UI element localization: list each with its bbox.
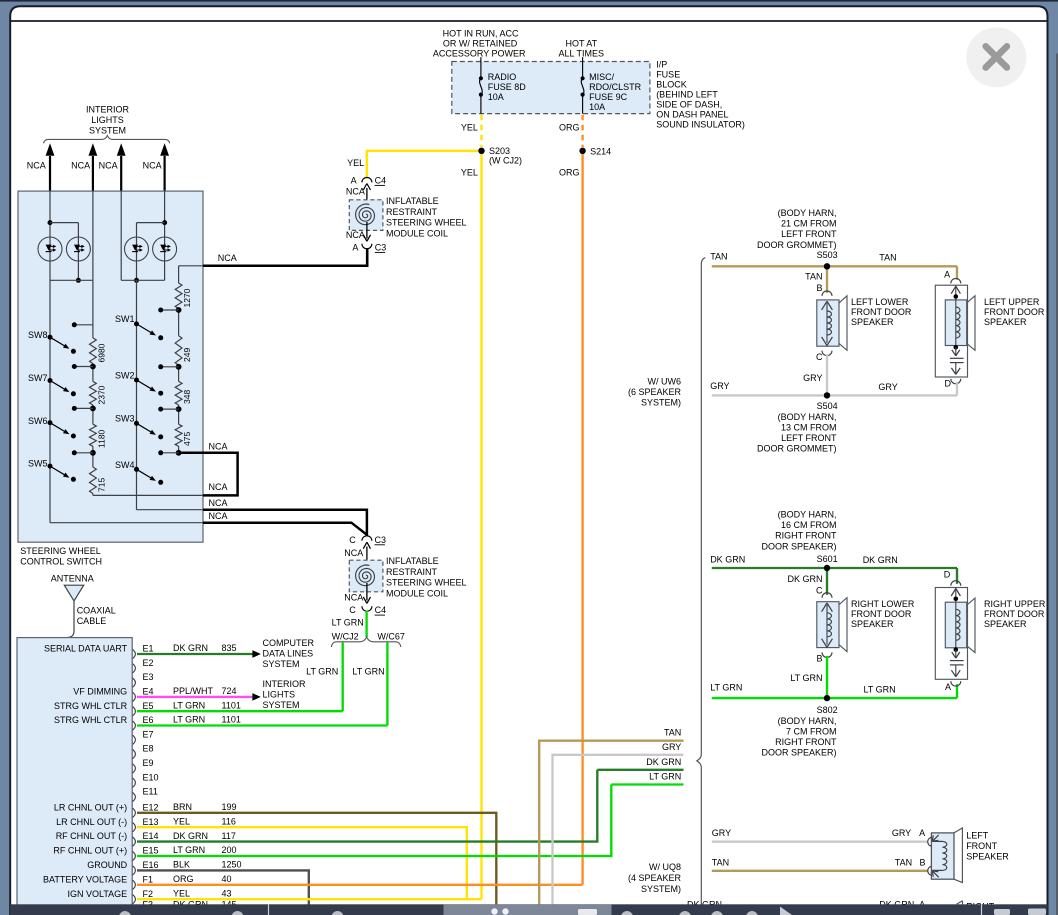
svg-text:FRONT DOOR: FRONT DOOR: [984, 307, 1045, 317]
svg-text:INTERIOR: INTERIOR: [263, 679, 307, 689]
svg-text:1250: 1250: [222, 860, 242, 870]
svg-text:E4: E4: [143, 687, 154, 697]
svg-text:LT GRN: LT GRN: [173, 715, 205, 725]
svg-text:E5: E5: [143, 701, 154, 711]
svg-text:TAN: TAN: [712, 857, 729, 867]
svg-text:E2: E2: [143, 658, 154, 668]
svg-text:43: 43: [222, 888, 232, 898]
svg-text:1101: 1101: [222, 715, 241, 725]
svg-text:LIGHTS: LIGHTS: [263, 690, 296, 700]
svg-text:INTERIOR: INTERIOR: [86, 105, 130, 115]
svg-text:DK GRN: DK GRN: [646, 757, 681, 767]
svg-text:MODULE COIL: MODULE COIL: [386, 589, 448, 599]
svg-text:249: 249: [182, 348, 192, 362]
svg-text:INFLATABLE: INFLATABLE: [386, 196, 439, 206]
svg-text:TAN: TAN: [710, 252, 727, 262]
svg-text:(4 SPEAKER: (4 SPEAKER: [628, 873, 682, 883]
svg-text:(6 SPEAKER: (6 SPEAKER: [628, 387, 682, 397]
svg-text:DOOR SPEAKER): DOOR SPEAKER): [761, 748, 836, 758]
svg-text:VF DIMMING: VF DIMMING: [73, 687, 127, 697]
svg-text:GRY: GRY: [710, 381, 729, 391]
svg-text:MISC/: MISC/: [589, 72, 615, 82]
svg-text:SW7: SW7: [28, 373, 48, 383]
svg-text:LT GRN: LT GRN: [864, 685, 896, 695]
svg-text:C: C: [349, 605, 356, 615]
svg-text:LT GRN: LT GRN: [710, 683, 742, 693]
svg-text:SYSTEM: SYSTEM: [263, 659, 300, 669]
svg-text:A: A: [352, 243, 358, 253]
svg-text:CABLE: CABLE: [77, 616, 107, 626]
svg-text:DK GRN: DK GRN: [173, 831, 208, 841]
svg-text:W/C67: W/C67: [377, 631, 405, 641]
svg-text:LT GRN: LT GRN: [173, 700, 205, 710]
svg-text:E1: E1: [143, 644, 154, 654]
svg-text:B: B: [919, 857, 925, 867]
svg-text:LT GRN: LT GRN: [790, 673, 822, 683]
svg-text:STRG WHL CTLR: STRG WHL CTLR: [54, 701, 128, 711]
svg-text:COAXIAL: COAXIAL: [77, 605, 116, 615]
svg-text:D: D: [944, 569, 951, 579]
svg-text:D: D: [945, 379, 952, 389]
svg-text:STEERING WHEEL: STEERING WHEEL: [20, 546, 101, 556]
svg-text:LEFT FRONT: LEFT FRONT: [781, 229, 837, 239]
svg-text:TAN: TAN: [805, 271, 822, 281]
svg-text:DOOR SPEAKER): DOOR SPEAKER): [761, 541, 836, 551]
svg-text:NCA: NCA: [143, 161, 162, 171]
svg-text:YEL: YEL: [173, 888, 190, 898]
svg-text:GRY: GRY: [803, 373, 822, 383]
svg-text:C: C: [349, 535, 356, 545]
svg-text:B: B: [816, 654, 822, 664]
svg-text:DATA LINES: DATA LINES: [263, 649, 314, 659]
svg-text:PPL/WHT: PPL/WHT: [173, 686, 214, 696]
svg-text:FUSE 8D: FUSE 8D: [488, 82, 527, 92]
svg-text:HOT AT: HOT AT: [565, 39, 597, 49]
svg-text:E8: E8: [143, 744, 154, 754]
svg-text:NCA: NCA: [209, 511, 228, 521]
svg-text:C: C: [816, 352, 823, 362]
svg-text:SYSTEM: SYSTEM: [263, 700, 300, 710]
svg-text:SPEAKER: SPEAKER: [984, 619, 1027, 629]
svg-text:ALL TIMES: ALL TIMES: [559, 48, 605, 58]
svg-text:YEL: YEL: [173, 816, 190, 826]
svg-text:SW1: SW1: [115, 314, 135, 324]
svg-text:SOUND INSULATOR): SOUND INSULATOR): [656, 119, 745, 129]
svg-text:10A: 10A: [488, 92, 504, 102]
svg-text:6980: 6980: [97, 343, 107, 362]
svg-text:BRN: BRN: [173, 802, 192, 812]
svg-text:1101: 1101: [222, 700, 241, 710]
svg-text:GRY: GRY: [878, 382, 897, 392]
svg-text:715: 715: [97, 478, 107, 492]
svg-text:F2: F2: [143, 889, 154, 899]
svg-text:GROUND: GROUND: [87, 860, 127, 870]
svg-text:NCA: NCA: [209, 498, 228, 508]
svg-text:E10: E10: [143, 772, 159, 782]
svg-text:LT GRN: LT GRN: [306, 666, 338, 676]
svg-text:SW2: SW2: [115, 370, 135, 380]
svg-text:S503: S503: [817, 250, 838, 260]
svg-text:F1: F1: [143, 874, 154, 884]
svg-text:BATTERY VOLTAGE: BATTERY VOLTAGE: [43, 874, 127, 884]
svg-text:GRY: GRY: [892, 828, 911, 838]
svg-text:A: A: [944, 270, 950, 280]
svg-text:40: 40: [222, 874, 232, 884]
svg-text:10A: 10A: [589, 102, 605, 112]
svg-text:RIGHT FRONT: RIGHT FRONT: [775, 531, 837, 541]
svg-text:(W CJ2): (W CJ2): [489, 155, 522, 165]
svg-text:SYSTEM): SYSTEM): [641, 884, 681, 894]
svg-text:S214: S214: [590, 146, 611, 156]
svg-text:BLOCK: BLOCK: [656, 80, 687, 90]
svg-text:S802: S802: [817, 705, 838, 715]
svg-text:ACCESSORY POWER: ACCESSORY POWER: [433, 48, 526, 58]
svg-text:E15: E15: [143, 846, 159, 856]
svg-text:SW4: SW4: [115, 460, 135, 470]
svg-text:TAN: TAN: [879, 252, 896, 262]
svg-text:117: 117: [222, 831, 236, 841]
svg-text:LEFT: LEFT: [966, 831, 989, 841]
svg-text:116: 116: [222, 816, 236, 826]
svg-text:C: C: [816, 586, 823, 596]
svg-text:TAN: TAN: [664, 728, 681, 738]
svg-text:RESTRAINT: RESTRAINT: [386, 207, 438, 217]
svg-text:7 CM FROM: 7 CM FROM: [786, 726, 837, 736]
svg-text:GRY: GRY: [662, 742, 681, 752]
svg-text:LR CHNL OUT (+): LR CHNL OUT (+): [54, 802, 127, 812]
svg-text:NCA: NCA: [209, 482, 228, 492]
svg-text:LT GRN: LT GRN: [352, 666, 384, 676]
svg-text:C3: C3: [375, 535, 387, 545]
svg-text:NCA: NCA: [71, 161, 90, 171]
svg-text:S504: S504: [817, 401, 838, 411]
svg-text:ORG: ORG: [173, 874, 194, 884]
svg-text:W/ UW6: W/ UW6: [648, 376, 682, 386]
svg-text:ON DASH PANEL: ON DASH PANEL: [656, 109, 728, 119]
svg-text:1180: 1180: [97, 429, 107, 448]
svg-text:E11: E11: [143, 787, 158, 797]
svg-text:LIGHTS: LIGHTS: [91, 115, 124, 125]
svg-text:348: 348: [182, 390, 192, 404]
svg-text:SPEAKER: SPEAKER: [984, 317, 1027, 327]
svg-text:GRY: GRY: [712, 828, 731, 838]
svg-text:STRG WHL CTLR: STRG WHL CTLR: [54, 715, 128, 725]
svg-text:(BODY HARN,: (BODY HARN,: [778, 412, 837, 422]
svg-text:SPEAKER: SPEAKER: [851, 619, 894, 629]
svg-text:DK GRN: DK GRN: [863, 555, 898, 565]
svg-text:SERIAL DATA UART: SERIAL DATA UART: [44, 644, 128, 654]
svg-text:FUSE: FUSE: [656, 70, 680, 80]
svg-text:E9: E9: [143, 758, 154, 768]
svg-text:16 CM FROM: 16 CM FROM: [781, 520, 837, 530]
svg-text:RIGHT UPPER: RIGHT UPPER: [984, 599, 1046, 609]
svg-text:MODULE COIL: MODULE COIL: [386, 229, 448, 239]
svg-text:LR CHNL OUT (-): LR CHNL OUT (-): [56, 817, 127, 827]
svg-text:RADIO: RADIO: [488, 72, 517, 82]
svg-text:NCA: NCA: [344, 592, 363, 602]
svg-text:NCA: NCA: [218, 253, 237, 263]
svg-text:BLK: BLK: [173, 860, 190, 870]
svg-text:A: A: [919, 828, 925, 838]
svg-text:1270: 1270: [182, 288, 192, 307]
svg-text:S601: S601: [817, 554, 838, 564]
svg-text:SPEAKER: SPEAKER: [966, 852, 1009, 862]
svg-text:NCA: NCA: [209, 441, 228, 451]
svg-text:SW6: SW6: [28, 416, 48, 426]
svg-text:200: 200: [222, 845, 237, 855]
svg-text:2370: 2370: [97, 385, 107, 404]
svg-text:NCA: NCA: [99, 161, 118, 171]
svg-text:RDO/CLSTR: RDO/CLSTR: [589, 82, 642, 92]
svg-text:CONTROL SWITCH: CONTROL SWITCH: [20, 556, 102, 566]
svg-text:RF CHNL OUT (+): RF CHNL OUT (+): [53, 846, 127, 856]
svg-text:E16: E16: [143, 860, 159, 870]
svg-text:DK GRN: DK GRN: [787, 574, 822, 584]
svg-text:DOOR GROMMET): DOOR GROMMET): [757, 444, 837, 454]
svg-text:FRONT DOOR: FRONT DOOR: [851, 609, 912, 619]
svg-text:SYSTEM: SYSTEM: [89, 126, 126, 136]
svg-text:(BODY HARN,: (BODY HARN,: [778, 716, 837, 726]
svg-text:W/ UQ8: W/ UQ8: [649, 862, 681, 872]
svg-text:C4: C4: [375, 605, 387, 615]
svg-text:INFLATABLE: INFLATABLE: [386, 556, 439, 566]
svg-text:LEFT FRONT: LEFT FRONT: [781, 433, 837, 443]
svg-text:SW8: SW8: [28, 330, 48, 340]
svg-text:DK GRN: DK GRN: [173, 643, 208, 653]
svg-text:TAN: TAN: [895, 857, 912, 867]
svg-text:RIGHT FRONT: RIGHT FRONT: [775, 737, 837, 747]
svg-text:13 CM FROM: 13 CM FROM: [781, 422, 837, 432]
svg-text:E6: E6: [143, 715, 154, 725]
svg-text:YEL: YEL: [347, 158, 364, 168]
svg-text:RIGHT LOWER: RIGHT LOWER: [851, 599, 915, 609]
svg-text:E3: E3: [143, 672, 154, 682]
svg-text:SW5: SW5: [28, 459, 48, 469]
svg-text:IGN VOLTAGE: IGN VOLTAGE: [68, 889, 128, 899]
svg-text:FRONT: FRONT: [966, 841, 997, 851]
svg-text:ORG: ORG: [559, 168, 580, 178]
svg-text:SPEAKER: SPEAKER: [851, 317, 894, 327]
svg-text:A: A: [351, 176, 357, 186]
svg-text:FUSE 9C: FUSE 9C: [589, 92, 628, 102]
svg-text:NCA: NCA: [346, 186, 365, 196]
svg-text:B: B: [816, 283, 822, 293]
svg-text:E12: E12: [143, 802, 159, 812]
svg-text:E7: E7: [143, 729, 154, 739]
svg-text:835: 835: [222, 643, 237, 653]
svg-text:LEFT LOWER: LEFT LOWER: [851, 297, 909, 307]
svg-text:ANTENNA: ANTENNA: [51, 574, 94, 584]
svg-text:SIDE OF DASH,: SIDE OF DASH,: [656, 99, 722, 109]
svg-text:STEERING WHEEL: STEERING WHEEL: [386, 578, 467, 588]
svg-text:W/CJ2: W/CJ2: [332, 631, 359, 641]
svg-text:(BEHIND LEFT: (BEHIND LEFT: [656, 90, 718, 100]
svg-text:C4: C4: [375, 176, 387, 186]
svg-text:E14: E14: [143, 831, 159, 841]
svg-text:YEL: YEL: [461, 168, 478, 178]
svg-text:E13: E13: [143, 817, 159, 827]
svg-text:21 CM FROM: 21 CM FROM: [781, 219, 837, 229]
svg-text:LEFT UPPER: LEFT UPPER: [984, 297, 1040, 307]
svg-text:FRONT DOOR: FRONT DOOR: [984, 609, 1045, 619]
svg-text:SYSTEM): SYSTEM): [641, 397, 681, 407]
svg-text:YEL: YEL: [461, 122, 478, 132]
svg-text:DOOR GROMMET): DOOR GROMMET): [757, 240, 837, 250]
svg-text:DK GRN: DK GRN: [710, 555, 745, 565]
svg-text:RF CHNL OUT (-): RF CHNL OUT (-): [56, 831, 128, 841]
svg-text:SW3: SW3: [115, 414, 135, 424]
svg-text:I/P: I/P: [656, 60, 667, 70]
svg-text:STEERING WHEEL: STEERING WHEEL: [386, 218, 467, 228]
svg-text:NCA: NCA: [346, 230, 365, 240]
svg-text:NCA: NCA: [27, 161, 46, 171]
svg-text:ORG: ORG: [559, 122, 580, 132]
svg-text:HOT IN RUN, ACC: HOT IN RUN, ACC: [443, 29, 519, 39]
svg-text:LT GRN: LT GRN: [649, 772, 681, 782]
svg-text:FRONT DOOR: FRONT DOOR: [851, 307, 912, 317]
svg-text:COMPUTER: COMPUTER: [263, 638, 315, 648]
svg-text:199: 199: [222, 802, 237, 812]
svg-text:OR W/ RETAINED: OR W/ RETAINED: [443, 39, 518, 49]
svg-text:NCA: NCA: [344, 548, 363, 558]
svg-text:724: 724: [222, 686, 237, 696]
svg-text:(BODY HARN,: (BODY HARN,: [778, 208, 837, 218]
svg-text:(BODY HARN,: (BODY HARN,: [778, 510, 837, 520]
svg-text:A: A: [945, 682, 951, 692]
svg-text:C3: C3: [375, 243, 387, 253]
svg-text:LT GRN: LT GRN: [332, 618, 364, 628]
svg-text:RESTRAINT: RESTRAINT: [386, 567, 438, 577]
svg-text:475: 475: [182, 432, 192, 446]
svg-text:LT GRN: LT GRN: [173, 845, 205, 855]
